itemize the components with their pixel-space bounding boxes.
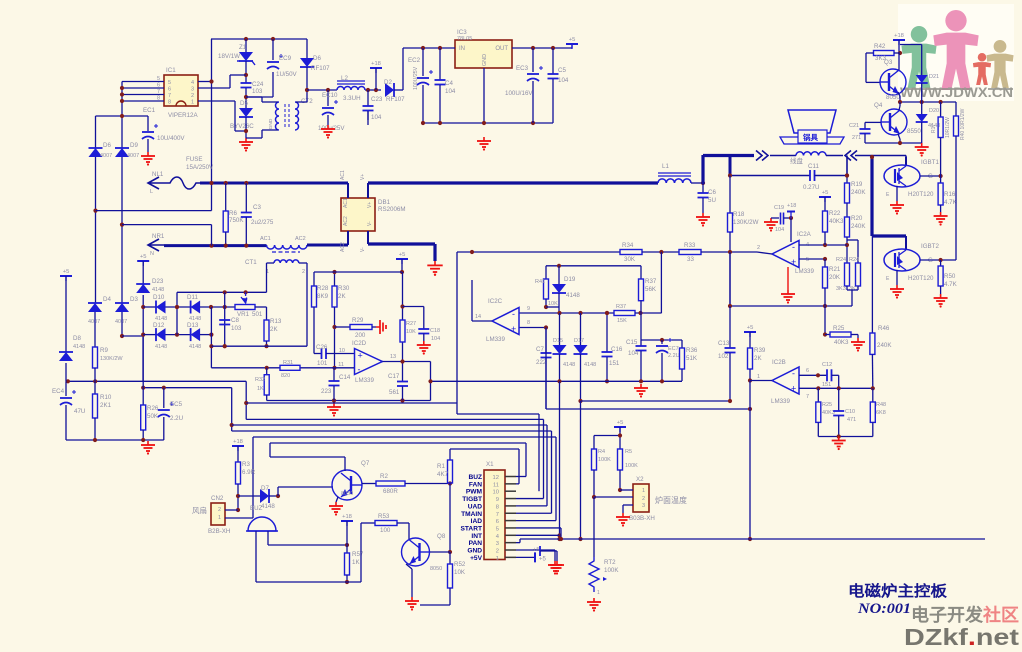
capacitor C18 104 (403, 306, 424, 308)
svg-text:IC3: IC3 (457, 29, 467, 36)
wire CT1 sec left (267, 262, 275, 264)
svg-text:R48: R48 (876, 402, 886, 408)
svg-text:4148: 4148 (566, 292, 580, 299)
capacitor EC3 100U/16V (532, 48, 534, 72)
ground D5 (245, 138, 247, 142)
svg-text:+5: +5 (822, 190, 829, 196)
svg-text:R5: R5 (625, 449, 632, 455)
transistor Q3 8050 (880, 69, 906, 95)
wire D20 bottom (921, 122, 923, 143)
svg-text:IC1: IC1 (166, 67, 176, 74)
svg-text:EC5: EC5 (170, 401, 183, 408)
svg-text:IN: IN (459, 46, 465, 52)
wire y582 (256, 581, 361, 583)
svg-text:DB1: DB1 (378, 199, 391, 206)
wire gnd pin2 (516, 549, 555, 551)
svg-text:240K: 240K (851, 223, 866, 230)
svg-text:222: 222 (536, 359, 547, 366)
svg-text:IGBT2: IGBT2 (921, 243, 939, 250)
svg-text:561: 561 (389, 389, 400, 396)
capacitor C13 102 (729, 252, 731, 306)
svg-text:C18: C18 (430, 328, 440, 334)
wire L1 out (691, 182, 703, 184)
ground stray (556, 561, 558, 565)
svg-text:H20T120: H20T120 (908, 275, 934, 282)
wire D12-D13 (166, 334, 191, 336)
wire R2 out (405, 483, 450, 485)
wire +5a stem (401, 259, 403, 272)
wire R42 left (865, 53, 867, 82)
svg-text:4148: 4148 (189, 344, 201, 350)
diode D13 4148 (190, 328, 192, 341)
wire sense rail (211, 345, 307, 347)
svg-text:-: - (358, 365, 361, 375)
svg-text:+18: +18 (894, 33, 904, 39)
connector CN2 (211, 503, 225, 525)
svg-text:DZkf.net: DZkf.net (904, 624, 1019, 647)
wire C24 bottom link (246, 96, 273, 98)
svg-text:LM339: LM339 (355, 377, 374, 384)
ground X2 (622, 513, 624, 517)
svg-text:7: 7 (168, 93, 171, 99)
resistor R40 10R1/2W (955, 102, 957, 116)
svg-text:RF107: RF107 (386, 96, 405, 103)
svg-text:1K: 1K (352, 559, 360, 566)
capacitor EC7 2.2U (661, 340, 663, 344)
svg-text:+: + (358, 351, 363, 361)
svg-text:501: 501 (252, 311, 263, 318)
resistor R29 200 (335, 326, 351, 328)
resistor R52 10K (449, 552, 451, 564)
diode D20 4148 (921, 102, 923, 114)
svg-text:D20: D20 (929, 108, 939, 114)
diode D5 BYV26C (239, 108, 253, 117)
svg-text:D13: D13 (187, 322, 199, 329)
wire R34-R33 (642, 251, 679, 253)
wire R37b out (635, 312, 661, 314)
resistor R22 40K3 (824, 197, 826, 211)
svg-text:10R1/2W: 10R1/2W (945, 117, 951, 138)
svg-text:+18: +18 (787, 203, 796, 209)
svg-text:6.9R: 6.9R (242, 469, 256, 476)
svg-text:3: 3 (642, 503, 645, 509)
diode D21 4148 (900, 44, 922, 46)
svg-text:D9: D9 (130, 142, 138, 149)
svg-text:104: 104 (775, 227, 784, 233)
svg-text:104: 104 (371, 114, 382, 121)
svg-text:IAD: IAD (471, 518, 483, 525)
wire buz right leg (267, 531, 269, 545)
svg-text:R22: R22 (829, 210, 841, 217)
fuse FUSE 15A/250V (164, 177, 200, 189)
svg-text:8050: 8050 (886, 94, 900, 101)
svg-text:EC7: EC7 (668, 346, 679, 352)
svg-text:1: 1 (191, 100, 194, 106)
svg-text:D11: D11 (187, 294, 198, 301)
svg-text:R37: R37 (616, 304, 626, 310)
capacitor C23 104 (367, 90, 369, 106)
svg-text:8050: 8050 (341, 491, 353, 497)
wire IN rail (403, 47, 455, 49)
svg-text:100K: 100K (598, 457, 611, 463)
svg-text:R46: R46 (878, 325, 890, 332)
wire CT2 topright (296, 101, 307, 103)
wire net431 (232, 430, 552, 432)
svg-text:+5: +5 (63, 269, 70, 275)
svg-text:8050: 8050 (430, 566, 442, 572)
capacitor C7 222 (545, 328, 547, 354)
svg-text:1: 1 (496, 556, 499, 562)
wire IC1 pin1 (198, 100, 235, 102)
svg-text:100U/25V: 100U/25V (413, 66, 419, 90)
svg-text:R13: R13 (270, 318, 282, 325)
resistor R5 100K (618, 449, 623, 470)
ground Q8 (411, 597, 413, 601)
wire D5 bottom (245, 117, 247, 138)
svg-text:START: START (461, 525, 483, 532)
svg-text:1U/50V: 1U/50V (276, 71, 298, 78)
svg-text:BUZ: BUZ (468, 474, 482, 481)
wire cluster rail (818, 436, 873, 438)
svg-text:15A/250V: 15A/250V (186, 164, 214, 171)
svg-text:V-: V- (360, 247, 366, 252)
wire coil bus up (701, 155, 704, 184)
plug chevrons right (756, 151, 768, 161)
diode D12 4148 (143, 334, 156, 336)
resistor R53 100 (361, 522, 375, 524)
resistor R20 240K (846, 203, 848, 217)
svg-text:271: 271 (852, 135, 861, 141)
svg-text:IC2B: IC2B (772, 359, 786, 366)
svg-text:7: 7 (806, 394, 809, 400)
diode D6b RF107 (306, 39, 308, 58)
wire IGBT1 collector (905, 157, 907, 166)
wire pwm bus v457 (456, 252, 458, 414)
resistor R24a 3K3 (845, 263, 850, 286)
svg-text:104: 104 (628, 350, 639, 357)
wire r4r5 bracket (619, 427, 621, 449)
resistor R27 10K (400, 304, 404, 308)
svg-text:R26: R26 (147, 405, 159, 412)
resistor R46 240K (871, 236, 873, 333)
svg-text:R29: R29 (352, 317, 364, 324)
wire D6b bottom (306, 67, 308, 90)
capacitor C3 2u2/275 (245, 183, 247, 213)
resistor R28 8K9 (313, 272, 315, 286)
svg-text:D8: D8 (73, 335, 81, 342)
wire buz left leg (255, 531, 257, 582)
svg-text:100: 100 (380, 527, 391, 534)
svg-text:LM339: LM339 (486, 336, 505, 343)
wire +18 buz stem (346, 521, 348, 545)
svg-text:V+: V+ (367, 202, 373, 208)
svg-text:4K7: 4K7 (437, 471, 449, 478)
svg-text:D2: D2 (384, 79, 392, 86)
svg-text:风扇: 风扇 (192, 505, 207, 515)
power +18 fan (232, 445, 244, 447)
svg-text:+5: +5 (539, 556, 547, 562)
svg-text:C15: C15 (626, 339, 638, 346)
svg-text:2K: 2K (270, 326, 278, 333)
capacitor C16 151 (606, 313, 608, 352)
ground cluster (838, 437, 840, 441)
wire IC2C out (472, 320, 492, 322)
wire bottom rail (422, 122, 553, 124)
wire coil to IGBT bus (855, 155, 906, 157)
svg-text:D3: D3 (130, 296, 138, 303)
svg-text:223: 223 (321, 388, 332, 395)
svg-text:2K1: 2K1 (100, 402, 112, 409)
wire net403 (246, 402, 457, 404)
svg-text:4007: 4007 (100, 153, 112, 159)
svg-text:D10: D10 (153, 294, 165, 301)
svg-text:14: 14 (475, 314, 481, 320)
svg-text:INT: INT (471, 533, 482, 540)
svg-text:8: 8 (527, 320, 530, 326)
resistor R26 50K (142, 388, 144, 405)
svg-text:电磁炉主控板: 电磁炉主控板 (848, 582, 948, 600)
logo underline (903, 88, 972, 90)
wire +5 row272 (314, 271, 402, 273)
svg-text:151: 151 (822, 382, 831, 388)
svg-text:R34: R34 (622, 242, 634, 249)
capacitor C21 271 (860, 128, 871, 130)
capacitor C5 104 (552, 48, 554, 74)
svg-text:40K3: 40K3 (834, 339, 849, 346)
svg-text:D19: D19 (564, 276, 576, 283)
transformer CT1 primary (267, 245, 308, 249)
svg-text:5U: 5U (708, 197, 716, 204)
svg-text:78L05: 78L05 (457, 36, 472, 42)
svg-text:X2: X2 (636, 476, 644, 483)
wire CN2 pin1 (225, 517, 253, 519)
logo person tan (994, 40, 1007, 53)
svg-text:R19: R19 (851, 181, 863, 188)
svg-text:5: 5 (806, 257, 809, 263)
svg-text:D15: D15 (553, 338, 563, 344)
wire C24-D5 (245, 88, 247, 108)
ground EC1 (147, 152, 149, 156)
svg-text:R31: R31 (283, 360, 293, 366)
svg-text:4148: 4148 (152, 287, 164, 293)
svg-text:锅具: 锅具 (803, 132, 818, 142)
capacitor C24 103 (241, 82, 252, 84)
svg-text:240K: 240K (851, 189, 866, 196)
svg-text:240K: 240K (877, 342, 892, 349)
svg-text:10: 10 (493, 490, 499, 496)
svg-text:10U/400V: 10U/400V (157, 135, 185, 142)
svg-text:0.27U: 0.27U (803, 184, 820, 191)
svg-text:471: 471 (847, 417, 856, 423)
power +5 r22 (819, 196, 831, 198)
resistor R31 820 (280, 365, 300, 370)
capacitor EC9 1U/50V (272, 39, 274, 60)
diode D2 RF107 (385, 83, 394, 97)
capacitor C26 101 (314, 353, 322, 355)
wire D7 out (269, 495, 278, 497)
svg-text:130K/2W: 130K/2W (733, 219, 759, 226)
svg-text:15K: 15K (617, 318, 627, 324)
wire OUT rail (512, 47, 572, 49)
wire row1 out (200, 306, 235, 308)
svg-text:3.3UH: 3.3UH (343, 95, 361, 102)
svg-text:R4: R4 (598, 449, 605, 455)
svg-text:+: + (511, 324, 516, 334)
diode D11 4148 (190, 301, 192, 314)
svg-text:4.7K: 4.7K (944, 281, 958, 288)
resistor R33 33 (679, 250, 701, 255)
svg-text:R24: R24 (836, 257, 846, 263)
svg-text:FUSE: FUSE (186, 156, 203, 163)
wire Q7 collector (344, 457, 346, 471)
svg-text:2K: 2K (754, 355, 762, 362)
svg-text:8550: 8550 (907, 128, 921, 135)
opamp IC2B LM339 (772, 367, 799, 394)
svg-text:750K: 750K (229, 217, 244, 224)
capacitor C17 561 (402, 362, 404, 382)
wire N bus 2 (307, 244, 348, 247)
ground R25 (857, 335, 859, 339)
wire row2 out (200, 334, 211, 336)
svg-text:100K: 100K (604, 567, 619, 574)
svg-text:11: 11 (338, 362, 344, 368)
ground C14 (333, 403, 335, 407)
wire Q7 emitter (336, 497, 338, 502)
wire D3 bottom (121, 312, 123, 336)
svg-text:6: 6 (168, 87, 171, 93)
svg-text:4148: 4148 (261, 503, 275, 510)
inductor pancoil 线盘 (796, 152, 826, 156)
wire IGBT2 gate (920, 259, 956, 261)
svg-text:2: 2 (757, 245, 760, 251)
ground R29 side (376, 326, 380, 328)
diode D9 4007 (115, 148, 129, 157)
wire R33 out (701, 251, 757, 253)
svg-text:51K: 51K (686, 355, 698, 362)
logo person pink (945, 10, 966, 31)
resistor R25 40K3 h (823, 332, 827, 336)
svg-text:AC2: AC2 (295, 236, 306, 242)
svg-text:Q7: Q7 (361, 460, 370, 467)
igbt IGBT2 H20T120 (884, 249, 920, 271)
bus B (581, 400, 731, 402)
svg-text:C26: C26 (316, 344, 328, 351)
svg-text:680R: 680R (383, 488, 398, 495)
svg-text:104: 104 (431, 336, 440, 342)
igbt IGBT1 H20T120 (884, 165, 920, 187)
opamp IC2A LM339 (772, 241, 799, 268)
bus A right (431, 380, 683, 382)
svg-text:C19: C19 (774, 205, 784, 211)
svg-text:104: 104 (445, 88, 456, 95)
svg-text:8: 8 (496, 504, 499, 510)
svg-text:GND: GND (268, 118, 274, 129)
resistor R10 2K1 (94, 381, 96, 394)
resistor R1 4K7 (449, 449, 451, 460)
svg-text:C24: C24 (252, 81, 264, 88)
svg-text:4148: 4148 (73, 344, 85, 350)
svg-text:R18: R18 (733, 211, 745, 218)
wire L2 drop (231, 388, 233, 431)
wire net528 (516, 527, 561, 529)
diode D7 4148 (238, 495, 260, 497)
svg-text:10K: 10K (454, 569, 466, 576)
svg-text:Z1: Z1 (239, 44, 247, 51)
svg-text:R25: R25 (822, 402, 832, 408)
ground IC2A (787, 267, 789, 290)
svg-text:5: 5 (496, 526, 499, 532)
ground RT2 (593, 598, 595, 602)
svg-text:D17: D17 (574, 338, 584, 344)
zener Z1 18V/1W (245, 39, 247, 52)
resistor R30 2K (334, 272, 336, 286)
svg-text:D5: D5 (240, 100, 248, 107)
svg-text:2: 2 (302, 269, 305, 275)
wire RT2 feed (593, 497, 595, 557)
svg-text:UAD: UAD (468, 503, 483, 510)
bus L1 left (66, 380, 246, 382)
wire IGBT2 emitter (896, 270, 898, 285)
svg-text:CT1: CT1 (245, 259, 257, 266)
capacitor C4 104 (439, 48, 441, 80)
ic U IC3 78L05 (455, 40, 512, 68)
wire CN2 pin2 (225, 509, 238, 511)
wire DB1 AC1 pin (347, 183, 349, 198)
svg-text:H20T120: H20T120 (908, 191, 934, 198)
resistor R37 56K (640, 266, 642, 279)
svg-text:Q8: Q8 (437, 533, 446, 540)
svg-text:IC2C: IC2C (488, 298, 503, 305)
wire +18 stem (375, 68, 377, 90)
svg-text:47U: 47U (74, 408, 85, 415)
transformer CT2 (276, 102, 280, 130)
pot VR1 501 (235, 305, 255, 310)
capacitor C12 151 (826, 369, 828, 381)
svg-text:IC2A: IC2A (797, 231, 812, 238)
svg-text:1: 1 (642, 488, 645, 494)
svg-text:R3: R3 (242, 461, 250, 468)
svg-text:3: 3 (496, 541, 499, 547)
ground IGBT1 (896, 201, 898, 205)
wire bus C left leg (545, 328, 547, 410)
ground R16 (940, 212, 942, 216)
wire VR1 out (255, 306, 267, 308)
svg-text:+18: +18 (233, 439, 243, 445)
wire Q4 base (865, 121, 881, 123)
svg-text:R6: R6 (229, 210, 237, 217)
logo person green (911, 26, 928, 43)
svg-text:AC1: AC1 (340, 170, 346, 180)
svg-text:103: 103 (231, 325, 242, 332)
wire drive rail (900, 101, 956, 103)
resistor R4 100K (592, 449, 597, 470)
power +5 x2 (614, 426, 626, 428)
svg-text:10: 10 (339, 348, 345, 354)
wire X2 pin3 (623, 504, 633, 506)
diode D23 4148 (142, 261, 144, 286)
svg-text:C14: C14 (339, 374, 351, 381)
svg-text:VR1: VR1 (237, 311, 250, 318)
wire D8 bottom (65, 363, 67, 381)
wire mid tap (176, 292, 178, 334)
wire Q3 collector (898, 53, 900, 70)
diode D19 4148 (558, 266, 560, 284)
wire Q7 right (362, 483, 376, 485)
wire IC2B in6 (799, 374, 827, 376)
svg-text:Q3: Q3 (884, 59, 893, 66)
svg-text:BYV26C: BYV26C (230, 123, 254, 130)
svg-text:+5: +5 (140, 254, 147, 260)
